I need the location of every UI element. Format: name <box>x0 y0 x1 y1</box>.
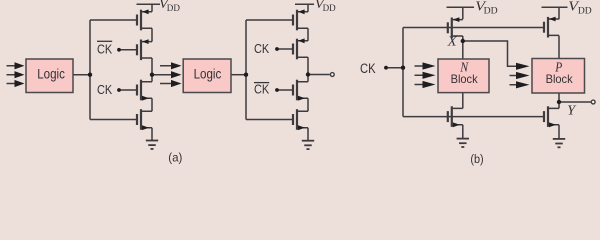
svg-text:CK: CK <box>97 82 113 97</box>
svg-text:CK: CK <box>360 61 376 76</box>
svg-text:X: X <box>447 35 457 50</box>
svg-text:DD: DD <box>323 3 337 13</box>
svg-text:CK: CK <box>97 42 113 57</box>
svg-text:Block: Block <box>546 72 573 86</box>
svg-text:(a): (a) <box>168 150 182 164</box>
svg-text:Logic: Logic <box>37 67 65 83</box>
svg-text:(b): (b) <box>470 152 483 166</box>
svg-text:Logic: Logic <box>194 67 222 83</box>
svg-text:Y: Y <box>567 102 576 117</box>
svg-text:DD: DD <box>484 6 498 17</box>
svg-text:DD: DD <box>578 6 592 17</box>
svg-text:DD: DD <box>167 3 181 13</box>
svg-text:Block: Block <box>451 72 478 86</box>
svg-text:CK: CK <box>254 41 270 56</box>
svg-text:CK: CK <box>254 82 270 97</box>
